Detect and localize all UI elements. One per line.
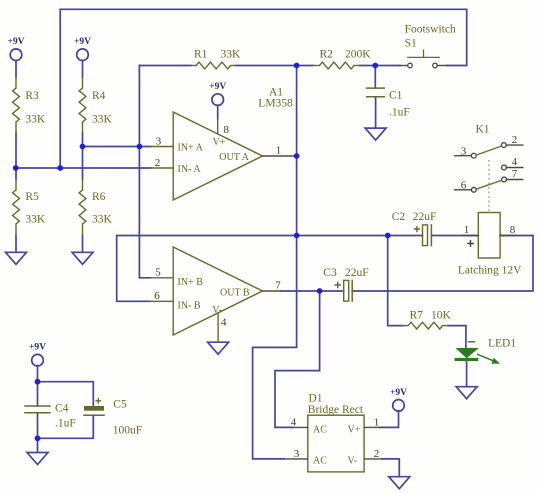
wire C3 right plate to K1 pin 8 riser [352, 236, 533, 292]
svg-text:C4: C4 [55, 403, 69, 415]
wire R2 right to C1 junction [360, 65, 376, 67]
resistor R7 10K [403, 310, 452, 330]
svg-text:7: 7 [275, 280, 281, 292]
svg-text:V-: V- [348, 456, 358, 467]
svg-text:33K: 33K [221, 49, 242, 61]
svg-text:R7: R7 [410, 310, 424, 322]
ground under C1 [365, 128, 386, 140]
wire R4/R6 column top [82, 60, 84, 77]
svg-text:C3: C3 [323, 267, 337, 279]
wire R7 right to LED1 anode [448, 326, 466, 349]
wire op-amp B feedback horizontal to IN- B column [117, 236, 297, 302]
svg-text:200K: 200K [345, 49, 371, 61]
svg-text:OUT A: OUT A [219, 152, 249, 163]
svg-text:OUT B: OUT B [220, 288, 250, 299]
svg-text:3: 3 [461, 145, 467, 157]
relay K1 lever 6-7 [476, 180, 501, 189]
relay K1 latching 12V [475, 124, 489, 136]
wire R3 bottom to junction [15, 133, 17, 168]
wire R1 right to A-out column [236, 65, 297, 67]
relay K1 lever 3-2 [476, 146, 501, 155]
node op-amp A output [294, 153, 300, 159]
svg-text:V-: V- [212, 305, 222, 316]
relay K1 contact pin 4 [502, 156, 523, 170]
op-amp A1 LM358 section A [151, 112, 295, 200]
svg-text:2: 2 [512, 134, 518, 146]
svg-text:Bridge Rect: Bridge Rect [308, 404, 364, 416]
node filter bottom [35, 435, 41, 441]
wire C5 top branch [38, 382, 94, 406]
node R3/R5 junction [13, 165, 19, 171]
node op-amp B output [317, 288, 323, 294]
power +9V above R3 [7, 37, 24, 60]
ground under R6 [72, 252, 93, 264]
svg-text:R2: R2 [320, 49, 334, 61]
svg-text:V+: V+ [213, 137, 226, 148]
LED LED1 [455, 338, 517, 364]
svg-text:22uF: 22uF [345, 267, 369, 279]
svg-text:Footswitch: Footswitch [405, 24, 456, 36]
wire R5 bottom to ground [15, 235, 17, 252]
relay K1 contact pin 3 [455, 145, 477, 158]
op-amp A1 LM358 section B [151, 247, 282, 342]
svg-text:10K: 10K [431, 310, 452, 322]
svg-text:33K: 33K [92, 214, 113, 226]
svg-text:LM358: LM358 [258, 98, 293, 110]
wire R6 bottom to ground [82, 235, 84, 252]
ground op-amp B V- pin 4 [208, 342, 229, 354]
node R1/R2 top [294, 63, 300, 69]
svg-text:R1: R1 [194, 49, 208, 61]
wire IN+ A net horizontal [83, 146, 151, 148]
power +9V above R4 [74, 37, 91, 60]
resistor R1 33K [191, 49, 241, 69]
svg-text:33K: 33K [25, 114, 46, 126]
svg-text:AC: AC [313, 424, 327, 435]
svg-text:33K: 33K [92, 114, 113, 126]
capacitor C4 .1uF [25, 403, 76, 430]
svg-text:+9V: +9V [7, 37, 24, 47]
capacitor C5 100uF polarized [84, 398, 142, 437]
svg-text:IN+ B: IN+ B [178, 277, 204, 288]
svg-text:AC: AC [313, 456, 327, 467]
wire R3/R5 column top [15, 60, 17, 77]
switch S1 footswitch pushbutton [400, 24, 456, 68]
power +9V for D1 V+ [390, 388, 407, 411]
svg-text:R3: R3 [25, 90, 39, 102]
svg-text:IN+ A: IN+ A [178, 143, 204, 154]
svg-text:Latching 12V: Latching 12V [458, 265, 522, 277]
resistor R3 33K [13, 77, 46, 133]
relay K1 coil pin 1 [462, 224, 478, 247]
wire D1 pin 2 to ground [382, 459, 399, 477]
node R4/R6 to IN+ A [80, 144, 86, 150]
relay K1 contact pin 6 [455, 179, 477, 192]
wire +9V to C4/C5 node [37, 365, 39, 381]
wire pin7 node down to D1 AC pin 4 [275, 291, 320, 427]
wire C4 top lead [37, 382, 39, 406]
svg-text:.1uF: .1uF [55, 418, 76, 430]
node C2 branch to R7 [385, 233, 391, 239]
power +9V op-amp A V+ supply [209, 82, 226, 105]
svg-text:+9V: +9V [209, 82, 226, 92]
svg-text:+9V: +9V [29, 343, 46, 353]
svg-text:R5: R5 [25, 191, 39, 203]
svg-text:4: 4 [512, 156, 518, 168]
node +9V filter top [35, 379, 41, 385]
capacitor C3 22uF polarized [323, 267, 368, 301]
wire C2 node down to R7 [388, 236, 403, 326]
svg-text:S1: S1 [405, 38, 417, 50]
svg-text:1: 1 [464, 224, 470, 236]
wire C4 bottom lead [37, 413, 39, 439]
svg-text:6: 6 [461, 179, 467, 191]
wire +9V to D1 V+ pin 1 [380, 411, 399, 428]
power +9V bottom-left filter [29, 343, 46, 366]
node top-wire to IN- A [57, 165, 63, 171]
svg-text:.1uF: .1uF [389, 107, 410, 119]
svg-text:IN- A: IN- A [178, 164, 202, 175]
ground D1 V- pin 2 [389, 477, 410, 489]
svg-text:100uF: 100uF [113, 425, 142, 437]
svg-text:1: 1 [276, 145, 282, 157]
D1 pin 3 AC stub [284, 448, 308, 460]
svg-text:+9V: +9V [74, 37, 91, 47]
svg-text:22uF: 22uF [413, 211, 437, 223]
wire R4 bottom to junction [82, 133, 84, 147]
node A-out feedback [294, 233, 300, 239]
resistor R5 33K [13, 179, 46, 235]
wire R1 left lead net [139, 65, 191, 67]
svg-text:1: 1 [374, 416, 380, 428]
D1 pin 1 V+ stub [364, 416, 380, 428]
wire R2 left lead net [297, 65, 313, 67]
svg-text:R6: R6 [92, 191, 106, 203]
node R2/C1 [372, 63, 378, 69]
svg-text:K1: K1 [475, 124, 489, 136]
capacitor C1 .1uF [367, 66, 410, 129]
svg-text:33K: 33K [25, 214, 46, 226]
svg-text:2: 2 [374, 448, 380, 460]
svg-text:C2: C2 [392, 211, 406, 223]
svg-text:IN- B: IN- B [178, 300, 201, 311]
svg-text:3: 3 [156, 135, 162, 147]
wire top net from IN- A column to footswitch right terminal [60, 9, 467, 168]
svg-text:4: 4 [221, 317, 227, 329]
wire IN- A net horizontal [16, 167, 151, 169]
bridge rectifier D1 [308, 393, 364, 472]
svg-text:C5: C5 [113, 399, 127, 411]
relay K1 contact pin 7 [502, 168, 523, 182]
svg-text:+9V: +9V [390, 388, 407, 398]
svg-text:4: 4 [291, 416, 297, 428]
wire R6 top from junction [82, 147, 84, 180]
svg-text:R4: R4 [92, 90, 106, 102]
svg-text:LED1: LED1 [488, 338, 516, 350]
wire R1 left vertical to IN+ A and IN+ B pin 5 [139, 66, 150, 278]
wire C4/C5 node to ground [37, 438, 39, 452]
ground under LED1 [456, 387, 477, 399]
wire A-out column from R1/R2 node down to op-amp B feedback node [296, 66, 298, 236]
wire C2 right plate to K1 coil pin 1 [431, 235, 478, 237]
wire C2 node horizontal [297, 235, 423, 237]
relay K1 contact pin 2 [501, 134, 522, 148]
svg-text:2: 2 [155, 157, 161, 169]
svg-text:8: 8 [224, 124, 230, 136]
svg-text:C1: C1 [389, 90, 403, 102]
wire op-amp B out net through C3 node [281, 290, 344, 292]
resistor R6 33K [79, 179, 112, 235]
svg-text:V+: V+ [348, 424, 361, 435]
wire R5 top from junction [15, 168, 17, 179]
svg-text:3: 3 [294, 448, 300, 460]
svg-text:5: 5 [155, 267, 161, 279]
relay K1 coil pin 8 [500, 224, 516, 236]
ground under R5 [6, 252, 27, 264]
svg-text:D1: D1 [309, 393, 323, 405]
D1 pin 4 AC stub [291, 416, 308, 428]
resistor R4 33K [79, 77, 112, 133]
relay K1 coil box [478, 213, 500, 259]
wire C1 junction to S1 left [375, 65, 400, 67]
node R1 left / IN+ A [137, 144, 143, 150]
wire C5 bottom branch [38, 415, 94, 438]
svg-text:7: 7 [512, 168, 518, 180]
capacitor C2 22uF polarized [392, 211, 437, 246]
svg-text:8: 8 [510, 224, 516, 236]
relay K1 actuator dotted line [488, 160, 490, 211]
resistor R2 200K [313, 49, 371, 69]
svg-text:6: 6 [154, 290, 160, 302]
wire A-out node down-left to D1 AC pin 3 [253, 236, 297, 459]
D1 pin 2 V- stub [364, 448, 382, 460]
ground C4/C5 filter [27, 453, 48, 465]
wire LED1 cathode to ground [466, 361, 468, 387]
